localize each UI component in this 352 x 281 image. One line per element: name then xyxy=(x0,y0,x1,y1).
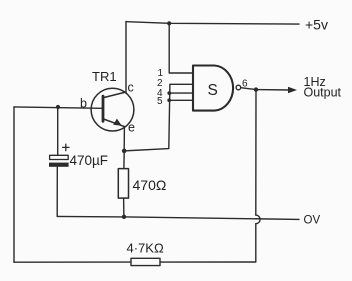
resistor R1 470 ohm xyxy=(118,151,128,217)
svg-text:470µF: 470µF xyxy=(70,153,109,168)
gate output inversion bubble xyxy=(236,85,241,90)
wire gate pin 4 stub xyxy=(169,92,193,94)
svg-text:OV: OV xyxy=(304,214,321,226)
capacitor C1 polarity plus xyxy=(63,144,69,150)
capacitor C1 top plate xyxy=(50,155,69,159)
wire 0V rail xyxy=(57,216,299,219)
capacitor C1 bottom plate xyxy=(49,163,69,167)
wire pin1 drop from +5V rail to gate pin 1 xyxy=(169,23,193,73)
svg-text:e: e xyxy=(128,121,135,135)
wire output line with arrow xyxy=(256,89,291,91)
node junction dot base/capacitor xyxy=(56,105,60,109)
node emitter junction dot xyxy=(122,149,127,154)
svg-text:TR1: TR1 xyxy=(92,69,117,84)
wire hop over 0V rail xyxy=(256,215,260,224)
wire output stub from bubble xyxy=(241,88,256,90)
node junction dot pin 5 xyxy=(167,98,171,102)
svg-text:470Ω: 470Ω xyxy=(133,177,167,193)
wire gate pin 5 stub xyxy=(169,99,193,101)
wire +5V top rail xyxy=(126,22,299,25)
wire emitter row up to gate pin 2 xyxy=(124,84,193,151)
svg-text:Output: Output xyxy=(304,86,342,100)
wire collector riser to +5V rail xyxy=(125,22,127,92)
svg-text:S: S xyxy=(208,82,218,99)
resistor R2 4.7K body xyxy=(131,258,160,265)
node junction dot on +5V rail xyxy=(167,21,171,25)
wire base lead xyxy=(14,107,102,108)
transistor Q1 TR1 xyxy=(91,88,134,131)
gate U1 Schmitt NAND body xyxy=(193,66,233,111)
svg-text:4·7KΩ: 4·7KΩ xyxy=(127,241,164,256)
capacitor C1 bottom wire xyxy=(56,167,58,217)
capacitor C1 top wire xyxy=(57,107,59,155)
node junction dot resistor/0V xyxy=(122,215,126,219)
svg-text:5: 5 xyxy=(157,96,163,107)
wire left feedback rail xyxy=(13,107,15,262)
output arrowhead xyxy=(288,87,297,94)
node junction dot pin 4 xyxy=(167,91,171,95)
wire emitter drop xyxy=(123,127,125,151)
svg-text:c: c xyxy=(128,81,134,95)
wire output to feedback vertical xyxy=(255,90,257,216)
wire feedback bottom left xyxy=(14,261,131,263)
wire feedback bottom right xyxy=(160,224,256,262)
svg-text:+5v: +5v xyxy=(305,17,328,33)
node output junction dot xyxy=(254,87,258,91)
